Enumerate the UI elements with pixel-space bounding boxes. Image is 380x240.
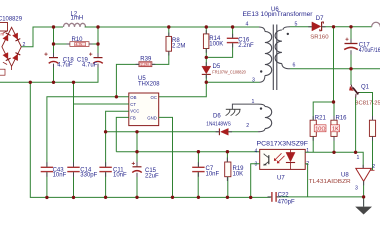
svg-text:1: 1 [252,99,255,105]
wire Q1 collector down [355,98,357,153]
inductor L2 [64,23,86,27]
wire secondary return line pin6 [290,68,380,70]
resistor R17 feedback divider [369,120,375,136]
wire left cap branch vertical x53.5 [53,27,55,57]
wire R14 top [205,27,207,34]
capacitor C17 plus sign [345,38,348,41]
svg-text:4.7k: 4.7k [76,43,83,47]
TL431 U8 [356,168,375,181]
junction VCC rail / C15 branch [135,130,138,133]
resistor R39 [139,62,152,67]
resistor R19 [225,162,231,177]
junction OB line / R39 branch [115,95,118,98]
wire R10 left [54,43,70,45]
junction main line / R8 [167,25,170,28]
junction bottom rail / R19 [226,196,229,199]
wire FB cap line y153.5 [116,151,259,153]
junction bottom rail / C7 [197,196,200,199]
wire R16 bottom [333,136,335,152]
capacitor C16 [227,38,239,42]
transformer U6 secondary winding [275,27,290,69]
transformer aux phase dot [260,107,262,109]
wire D5 bottom to OC [159,74,207,96]
optocoupler U7 [260,149,306,169]
wire right cap branch vertical x98 [97,27,99,57]
svg-text:FB: FB [130,116,136,121]
svg-text:U7: U7 [277,176,285,182]
junction bottom rail / C43 [45,196,48,199]
svg-text:THX208: THX208 [138,81,160,87]
wire U7 pin2 to secondary ground [305,164,307,197]
junction D5 / pin3 line [205,81,208,84]
bridge rectifier B1 [2,27,21,66]
svg-text:470pF: 470pF [278,199,295,205]
svg-text:GND: GND [147,116,157,121]
wire R21 R16 top node [313,102,333,120]
wire U7 pin1 line [305,152,363,168]
capacitor C18 plus sign [44,53,47,56]
junction cathode line / R16 [332,151,335,154]
svg-text:SR160: SR160 [310,34,328,40]
resistor R8 [166,36,172,51]
wire bridge output to main line [21,27,63,47]
wire D6 right to aux winding pin 2 [228,131,258,133]
wire C19 bottom to primary ground rail [0,64,98,83]
wire C43 bottom [46,172,48,197]
svg-text:330pF: 330pF [80,173,97,179]
power ground symbol [355,207,372,215]
capacitor C19 plus sign [89,53,92,56]
wire R8 top [168,27,170,36]
junction primary ground rail / C18 [52,81,55,84]
capacitor C7 [192,167,204,171]
junction VCC rail [104,130,107,133]
wire secondary ground rail [277,196,364,198]
svg-text:C22: C22 [278,192,290,198]
junction cathode line / Q1 [354,151,357,154]
junction main line / C16 [231,25,234,28]
bridge pin 4 stub and box [0,66,12,75]
capacitor C11 [99,167,111,171]
resistor R16 [331,120,337,136]
svg-text:100K: 100K [209,42,223,48]
R16 value box [331,125,340,133]
junction bottom rail / U5 GND [171,196,174,199]
svg-text:1: 1 [306,148,309,154]
junction main line / C19 branch [96,25,99,28]
resistor R21 [310,120,316,136]
junction snubber node [205,56,208,59]
wire Q1 collector top [350,69,352,85]
svg-text:1: 1 [357,155,360,161]
wire R17 bottom to TL431 ref [371,136,373,170]
junction secondary ground / TL431 anode [362,195,365,198]
wire R21 bottom [312,136,314,152]
transformer core [273,25,277,91]
junction output line / C17 [349,25,352,28]
wire R19 top [226,152,228,162]
output inductor partial [372,22,380,27]
junction R21 R16 top node [332,100,335,103]
svg-text:4: 4 [255,149,258,155]
junction return line / C17 and Q1 [349,67,352,70]
wire C11 bottom [105,172,107,197]
transformer secondary phase dot [287,33,289,35]
svg-text:470uF/16: 470uF/16 [359,48,380,54]
transformer U6 primary winding [259,27,272,82]
svg-text:C108829: C108829 [0,17,23,23]
wire C15 vertical from rail y131 [136,132,138,167]
junction main line / R14 [205,25,208,28]
wire R10 right [89,43,98,45]
wire R16 top [333,102,335,120]
junction R10 left / C18 [52,42,55,45]
wire R19 bottom [227,177,229,198]
capacitor C43 [41,167,53,171]
wire U7 pin3 to ground rail [251,164,260,198]
R21 value box [314,125,326,133]
junction bottom rail / C15 [135,196,138,199]
wire C17 top [350,27,352,43]
svg-text:4.7uF: 4.7uF [82,63,98,69]
junction bottom rail / U7 pin3 [249,196,252,199]
wire CT line and C14 branch [74,82,129,167]
wire GND line [159,117,173,197]
wire R14 bottom to D5 [205,48,207,66]
svg-text:D7: D7 [316,16,324,22]
component pin stubs [47,27,373,207]
wire D7 cathode to output [322,26,372,28]
junction FB line / R19 [226,150,229,153]
wire VCC line [106,111,129,167]
wire R39 left to OB [116,64,138,96]
svg-text:22uF: 22uF [145,174,159,180]
svg-text:10nF: 10nF [206,171,220,177]
wire C17 bottom [350,50,352,68]
svg-text:2: 2 [372,164,375,170]
junction primary ground rail / CT branch [72,81,75,84]
wire Q1 base to feedback resistor [360,93,373,121]
svg-text:2.2M: 2.2M [141,63,149,67]
svg-text:PC817X3NSZ9F: PC817X3NSZ9F [257,142,309,148]
svg-text:D6: D6 [213,114,221,120]
wire aux pin 1 line [232,104,258,109]
svg-text:6: 6 [293,62,296,68]
svg-text:Q1: Q1 [361,84,370,90]
wire C7 bottom [197,172,199,197]
capacitor C15 [132,167,142,173]
resistor R14 [203,34,209,49]
wire FB line [116,117,129,151]
capacitor C14 [67,167,79,171]
svg-text:4.7uF: 4.7uF [57,63,73,69]
svg-text:1N4148WS: 1N4148WS [206,122,231,128]
capacitor C16 top wire [232,27,234,38]
svg-text:OB: OB [130,95,136,100]
diode D7 [312,22,324,31]
svg-text:U8: U8 [341,172,349,178]
junction R10 right / C19 [96,42,99,45]
junction bottom rail / C11 [104,196,107,199]
svg-text:1mH: 1mH [71,15,84,21]
diode D5 [202,66,211,74]
wire main line L2 to transformer pin 4 [85,26,259,28]
wire C16 bottom to snubber node [206,43,232,57]
wire C18 bottom [53,64,55,83]
svg-text:3: 3 [252,78,255,84]
svg-text:10Ω: 10Ω [315,127,325,133]
svg-text:OC: OC [151,95,157,100]
capacitor C18 [49,58,59,64]
wire TL431 anode down [363,181,365,206]
transformer U6 aux winding [258,104,272,132]
transistor Q1 [349,85,360,99]
svg-text:3: 3 [355,185,358,191]
svg-text:EE13 10pinTransformer: EE13 10pinTransformer [243,12,313,18]
wire OB line [47,97,129,167]
junction primary ground rail / drop wire [29,81,32,84]
svg-text:2: 2 [246,123,249,129]
svg-text:2.2nF: 2.2nF [238,43,254,49]
svg-text:10K: 10K [233,171,244,177]
junction FB line / C7 [197,150,200,153]
wire transformer pin3 line [206,81,259,83]
chip U5 THX208 [129,93,159,126]
capacitor C19 [93,58,103,64]
svg-text:4: 4 [246,21,249,27]
wire C15 bottom [136,173,138,197]
svg-text:1K: 1K [332,127,339,133]
wire C14 bottom [73,172,75,197]
junction bottom rail / C14 [72,196,75,199]
resistor R10 [70,42,89,47]
wire secondary top to D7 [290,26,312,28]
capacitor C15 plus sign [132,162,135,165]
junction output line / sense drop [332,25,335,28]
transformer primary phase dot [260,70,262,72]
svg-text:10nF: 10nF [53,173,67,179]
wire primary ground drop x30.3 [30,82,270,197]
wire output sense drop x333.5 [333,27,335,102]
junction FB line / C15 [135,150,138,153]
fuse/inductor value box at left edge [0,23,8,37]
junction main line / C18 branch [52,25,55,28]
chassis ground symbol [226,109,241,115]
svg-text:VCC: VCC [130,109,139,114]
svg-text:TL431AIDBZR: TL431AIDBZR [309,179,351,185]
wire R8 bottom to R39 [152,52,169,65]
svg-text:3: 3 [255,161,258,167]
svg-text:10nF: 10nF [113,173,127,179]
svg-text:2.2M: 2.2M [172,43,185,49]
capacitor C22 [272,192,276,202]
wire C7 vertical [197,152,199,167]
wire VCC-D6 rail y131 [106,131,220,133]
svg-text:FR107W_C108820: FR107W_C108820 [212,69,246,74]
capacitor C17 [344,44,358,50]
svg-text:CT: CT [130,102,136,107]
svg-text:BC817-25: BC817-25 [355,100,380,106]
diode D6 [219,128,228,135]
